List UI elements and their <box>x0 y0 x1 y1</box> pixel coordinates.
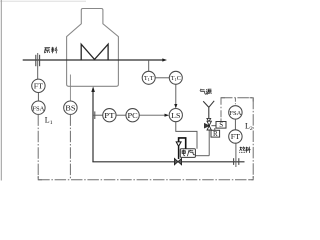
wire: converter box to solenoid valve line <box>195 155 209 157</box>
wire: fuel riser to furnace <box>92 90 94 162</box>
label 气源 (air supply) <box>200 89 212 95</box>
air supply Y symbol <box>203 101 214 119</box>
svg-text:PT: PT <box>104 112 115 120</box>
svg-text:R: R <box>213 131 218 138</box>
wire: FT2 tap down to fuel orifice <box>235 143 237 167</box>
FT2 circle <box>229 130 242 143</box>
wire: fuel process line <box>92 161 244 163</box>
wire: T1C down to LS with arrow <box>175 84 177 104</box>
LS circle <box>169 109 182 122</box>
svg-text:L2: L2 <box>245 121 253 132</box>
wire: solenoid valve bottom drop <box>208 130 210 156</box>
wire: bottom signal bus dash-dot <box>38 179 253 181</box>
wire: valve to S box <box>211 125 216 127</box>
T1C circle <box>169 71 182 84</box>
furnace vessel outline <box>67 9 119 87</box>
wire: FSA2 to FT2 <box>234 119 236 130</box>
wire: FSA2 link to signal line <box>234 98 236 106</box>
wire: BS signal dash-dot down <box>69 114 71 179</box>
wire: PT to PC <box>116 114 126 116</box>
svg-text:T1C: T1C <box>171 75 181 82</box>
actuator triangle <box>176 142 181 146</box>
svg-text:T1T: T1T <box>144 75 154 82</box>
three-way solenoid valve <box>207 121 211 125</box>
wire: top-right signal dash-dot <box>221 97 253 99</box>
orifice plate on fuel line <box>233 158 235 165</box>
svg-text:PC: PC <box>128 112 138 120</box>
R box <box>211 130 220 137</box>
svg-text:LS: LS <box>171 111 180 120</box>
wire: tap to PT <box>93 114 103 116</box>
valve stem <box>178 146 180 159</box>
wire: feed process line <box>23 59 164 61</box>
wire: LS output down-right-down <box>176 122 197 149</box>
air arrow open triangle <box>207 118 211 122</box>
wire: BS probe line into furnace <box>69 75 71 102</box>
wire: L1 signal dash-dot down <box>37 114 39 179</box>
wire: PC to LS with arrow <box>139 114 164 116</box>
wire: right signal riser dash-dot L2 <box>252 98 254 180</box>
svg-text:FT: FT <box>34 82 44 91</box>
S solenoid box <box>216 122 226 129</box>
thick hook from converter to actuator <box>179 138 186 149</box>
wire: orifice tap down to FT1 <box>37 53 39 79</box>
wire: tap line down from feed to T1T <box>148 60 150 71</box>
svg-text:FT: FT <box>231 132 241 141</box>
top faint border line <box>0 0 86 2</box>
wire: T1T to T1C <box>155 77 169 79</box>
label 燃料 (fuel) <box>240 147 251 153</box>
label 电/气 inside box <box>182 150 195 157</box>
svg-text:FSA: FSA <box>32 105 44 112</box>
PT circle <box>103 109 116 122</box>
FSA2 circle <box>229 106 242 119</box>
svg-text:L1: L1 <box>45 115 53 126</box>
control valve body on fuel line <box>174 158 181 164</box>
FT1 circle <box>32 79 45 92</box>
arrowhead fuel into furnace <box>91 86 95 92</box>
T1T circle <box>142 71 155 84</box>
arrowhead feed line end <box>162 58 167 61</box>
PT tap tick <box>94 111 96 119</box>
D/Q (electric/pneumatic) converter box <box>180 149 195 158</box>
wire: signal drop to solenoid S <box>220 98 222 122</box>
svg-text:FSA: FSA <box>229 110 241 117</box>
svg-text:BS: BS <box>65 104 75 112</box>
orifice plate on feed line <box>35 55 37 66</box>
svg-text:S: S <box>219 122 223 129</box>
solid corner elbows of signal frame <box>38 98 253 180</box>
BS circle <box>64 101 77 114</box>
label 原料 (raw material) <box>44 47 57 54</box>
PC circle <box>126 109 139 122</box>
left border line <box>0 0 2 181</box>
heater coil M <box>81 44 108 60</box>
FSA1 circle <box>32 101 45 114</box>
wire: S to R <box>214 128 216 130</box>
wire: FT1 to FSA1 <box>37 93 39 102</box>
